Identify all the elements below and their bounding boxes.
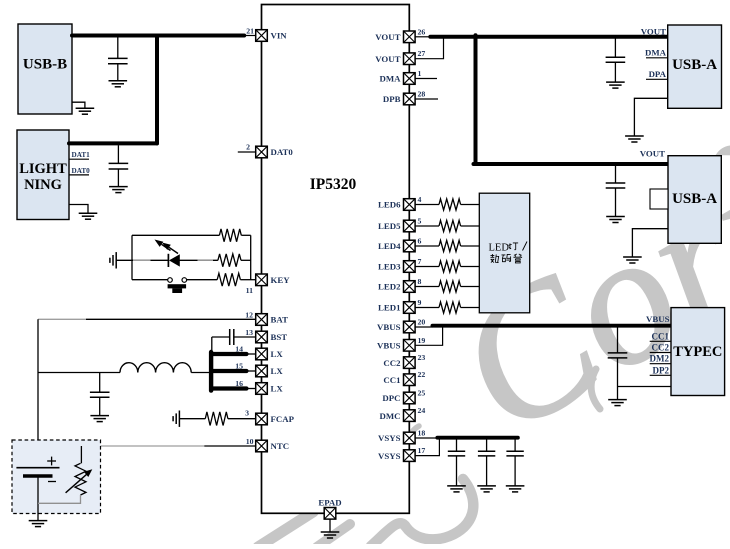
- svg-text:10: 10: [246, 437, 254, 446]
- svg-text:LED6: LED6: [378, 200, 401, 210]
- resistor R8 LED3: [439, 261, 461, 272]
- resistor R4 FCAP: [205, 412, 228, 426]
- wire R1 to right rail: [241, 234, 250, 236]
- capacitor C6: [606, 182, 626, 184]
- wire R8 to LED box: [461, 266, 480, 268]
- capacitor C4 wire: [99, 373, 101, 393]
- wire key left rail: [131, 235, 133, 279]
- ground C4: [90, 415, 109, 417]
- battery BT1 minus sign: [48, 481, 56, 483]
- svg-text:LED2: LED2: [378, 282, 401, 292]
- ground USB-A 1: [625, 135, 644, 137]
- wire VIN thin to pin 21: [244, 35, 256, 37]
- svg-text:2: 2: [246, 143, 250, 152]
- wire VOUT2 thick drop: [474, 35, 478, 164]
- svg-text:FCAP: FCAP: [271, 414, 295, 424]
- battery pack dashed box: [12, 440, 101, 514]
- wire DPB pin 28 stub: [415, 98, 438, 100]
- thermistor RT1 bottom wire: [38, 495, 81, 503]
- wire LED2 pin to resistor: [415, 286, 439, 288]
- switch SW1 contact left: [168, 278, 173, 283]
- svg-text:3: 3: [245, 409, 249, 418]
- wire BAT to pin 12: [86, 318, 256, 320]
- svg-text:LED1: LED1: [378, 303, 401, 313]
- pin 9 LED1 square: [404, 302, 416, 314]
- svg-text:VBUS: VBUS: [377, 341, 401, 351]
- wire R9 to LED box: [461, 286, 480, 288]
- wire battery rail vertical: [37, 319, 39, 467]
- wire LED5 pin to resistor: [415, 225, 439, 227]
- svg-text:VSYS: VSYS: [378, 433, 401, 443]
- svg-text:DAT0: DAT0: [72, 167, 91, 175]
- LX thick vertical bar: [209, 352, 213, 391]
- capacitor C8: [448, 450, 465, 452]
- wire BAT gray seg: [38, 318, 86, 320]
- capacitor C6 wire: [615, 166, 617, 183]
- LED display label line2: [490, 254, 499, 263]
- svg-text:BST: BST: [271, 332, 288, 342]
- capacitor C5: [606, 56, 626, 58]
- capacitor C9 wire: [486, 439, 488, 451]
- wire BST cap left: [212, 336, 230, 338]
- wire VBUS pin 20 thin: [415, 326, 432, 328]
- pin 7 LED3 square: [404, 261, 416, 273]
- inductor L1: [120, 363, 191, 373]
- svg-text:DAT1: DAT1: [72, 151, 91, 159]
- wire inductor to LX bar: [191, 372, 209, 374]
- svg-text:LIGHT: LIGHT: [19, 161, 67, 177]
- resistor R6 LED5: [439, 220, 461, 231]
- capacitor C7 gnd wire: [617, 358, 619, 400]
- svg-text:DMA: DMA: [379, 74, 401, 84]
- wire BST pin 13 to cap: [234, 336, 256, 338]
- capacitor C2: [109, 162, 129, 164]
- wire VOUT2 thick bus: [474, 162, 669, 166]
- svg-text:24: 24: [418, 406, 426, 415]
- battery BT1 plate short: [23, 474, 53, 477]
- svg-text:22: 22: [418, 370, 426, 379]
- LED D1 arrow 2: [169, 247, 178, 253]
- svg-text:DM2: DM2: [650, 354, 670, 364]
- node CC1 stub: [650, 340, 671, 342]
- wire NTC to pin 10: [204, 445, 255, 447]
- connector USB-A 1 box: [668, 25, 722, 108]
- LED D1 cathode bar: [167, 254, 169, 267]
- wire key right rail: [250, 235, 252, 279]
- ground USB-A 2: [623, 256, 642, 258]
- wire VOUT pin 26 thin: [415, 36, 430, 38]
- pin 27 VOUT square: [404, 53, 416, 65]
- ground C7: [608, 399, 627, 401]
- pin 22 CC1 square: [404, 374, 416, 386]
- svg-text:CC2: CC2: [652, 343, 670, 353]
- wire LED6 pin to resistor: [415, 204, 439, 206]
- connector LIGHTNING box: [17, 130, 69, 220]
- ground C9: [477, 485, 496, 487]
- ground KEY side: [115, 252, 117, 268]
- svg-text:VIN: VIN: [271, 31, 288, 41]
- pin 25 DPC square: [404, 392, 416, 404]
- pin 15 LX square: [256, 365, 268, 377]
- svg-text:VOUT: VOUT: [375, 32, 400, 42]
- pin 4 LED6 square: [404, 199, 416, 211]
- LED D1 arrow 1: [162, 244, 171, 250]
- svg-text:DAT0: DAT0: [271, 147, 294, 157]
- resistor R9 LED2: [439, 281, 461, 292]
- ground C2: [109, 186, 128, 188]
- pin 5 LED5 square: [404, 220, 416, 232]
- pin 21 VIN square: [256, 30, 268, 42]
- LED D1 triangle: [169, 254, 180, 266]
- svg-text:25: 25: [418, 389, 426, 398]
- connector USB-B box: [18, 24, 72, 114]
- node CC2 stub: [650, 352, 671, 354]
- svg-text:TYPEC: TYPEC: [673, 344, 722, 360]
- pin 18 VSYS square: [404, 432, 416, 444]
- pin 24 DMC square: [404, 410, 416, 422]
- svg-text:CC1: CC1: [652, 331, 670, 341]
- wire R10 to LED box: [461, 307, 480, 309]
- pin 6 LED4 square: [404, 240, 416, 252]
- svg-text:LED4: LED4: [378, 241, 401, 251]
- capacitor C4 gnd wire: [99, 397, 101, 415]
- svg-text:NING: NING: [24, 177, 62, 193]
- LX thick arm pin 14: [211, 352, 246, 356]
- svg-text:VOUT: VOUT: [375, 54, 400, 64]
- resistor R10 LED1: [439, 302, 461, 313]
- node DM2 stub: [650, 363, 671, 365]
- LX thick arm pin 16: [211, 386, 246, 390]
- wire VIN thick USB-B to pin 21: [72, 34, 244, 38]
- capacitor C1: [108, 57, 128, 59]
- watermark fragment stroke c: [317, 524, 350, 547]
- pin EPAD square: [324, 508, 336, 520]
- wire LX arm15 to pin: [246, 370, 256, 372]
- watermark fragment near pin 18: [409, 426, 419, 440]
- svg-text:VSYS: VSYS: [378, 451, 401, 461]
- thermistor RT1 zigzag: [75, 463, 86, 495]
- pin 20 VBUS square: [404, 321, 416, 333]
- connector TYPEC box: [671, 308, 725, 396]
- capacitor C1 gnd wire: [117, 64, 119, 81]
- watermark text Corp: [424, 107, 730, 473]
- wire VOUT thick bus: [430, 35, 667, 39]
- capacitor C1 wire: [117, 37, 119, 58]
- resistor R3 key bottom: [217, 273, 240, 286]
- pin 19 VBUS square: [404, 340, 416, 352]
- pin 3 FCAP square: [256, 413, 268, 425]
- svg-text:17: 17: [418, 446, 426, 455]
- svg-text:VOUT: VOUT: [641, 26, 666, 36]
- wire FCAP gnd to R4: [179, 418, 205, 420]
- capacitor C6 gnd wire: [615, 188, 617, 217]
- wire VBUS thick bus: [432, 324, 671, 328]
- wire key bottom rail left: [132, 279, 168, 281]
- pin 8 LED2 square: [404, 281, 416, 293]
- battery bottom wire: [37, 476, 39, 521]
- svg-text:USB-B: USB-B: [23, 57, 67, 73]
- watermark fragment o lower-left arc: [591, 369, 600, 409]
- watermark fragment top right: [716, 146, 730, 156]
- ground EPAD: [321, 531, 340, 533]
- svg-text:26: 26: [418, 27, 426, 36]
- pin 13 BST square: [256, 331, 268, 343]
- wire VBUS pin 19 riser: [415, 327, 443, 345]
- svg-text:BAT: BAT: [271, 315, 289, 325]
- wire LED row gray seg2: [198, 259, 214, 261]
- wire LED1 pin to resistor: [415, 307, 439, 309]
- capacitor C8 gnd wire: [456, 456, 458, 486]
- ground USB-B: [76, 107, 95, 109]
- pin 2 DAT0 square: [256, 146, 268, 158]
- wire C7 to TYPEC: [618, 386, 672, 388]
- pin 28 DPB square: [404, 93, 416, 105]
- svg-text:EPAD: EPAD: [318, 498, 341, 508]
- resistor R2 key mid: [218, 254, 241, 267]
- svg-text:VOUT: VOUT: [640, 149, 665, 159]
- node DPA stub: [646, 78, 668, 80]
- capacitor C10: [506, 450, 523, 452]
- svg-text:9: 9: [418, 298, 422, 307]
- capacitor C7 wire: [617, 327, 619, 353]
- svg-text:DPB: DPB: [383, 94, 401, 104]
- IC U1 IP5320 body: [262, 5, 410, 514]
- svg-text:7: 7: [418, 257, 422, 266]
- svg-text:28: 28: [418, 90, 426, 99]
- resistor R7 LED4: [439, 240, 461, 251]
- wire LED row right: [179, 259, 218, 261]
- node DMA stub: [646, 57, 668, 59]
- svg-text:USB-A: USB-A: [672, 57, 717, 73]
- svg-text:DP2: DP2: [653, 365, 670, 375]
- svg-text:4: 4: [418, 195, 422, 204]
- wire LED4 pin to resistor: [415, 245, 439, 247]
- capacitor C5 wire: [614, 39, 616, 58]
- LIGHTNING ground wire: [69, 205, 88, 214]
- LX thick arm pin 15: [211, 369, 246, 373]
- svg-text:DPC: DPC: [382, 393, 400, 403]
- resistor R5 LED6: [439, 199, 461, 210]
- wire key gnd to LED: [116, 259, 133, 261]
- svg-text:LX: LX: [271, 366, 284, 376]
- capacitor C5 gnd wire: [614, 62, 616, 82]
- pin 16 LX square: [256, 383, 268, 395]
- capacitor C10 wire: [514, 439, 516, 451]
- battery BT1 plus sign: [47, 460, 56, 462]
- wire R2 to right rail: [241, 259, 251, 261]
- USB-B ground wire: [72, 102, 85, 108]
- svg-text:19: 19: [418, 336, 426, 345]
- wire R7 to LED box: [461, 245, 480, 247]
- wire VSYS pin 18 thin: [415, 437, 437, 439]
- capacitor C3 BST: [233, 329, 235, 345]
- wire R6 to LED box: [461, 225, 480, 227]
- svg-text:DPA: DPA: [649, 69, 667, 79]
- svg-text:6: 6: [418, 237, 422, 246]
- svg-text:IP5320: IP5320: [310, 176, 357, 193]
- ground C6: [606, 216, 625, 218]
- capacitor C2 wire: [117, 145, 119, 163]
- wire DMA pin 1 stub: [415, 78, 437, 80]
- node DP2 stub: [650, 374, 671, 376]
- wire VSYS pin 17 riser: [415, 439, 439, 456]
- wire NTC gray: [81, 445, 204, 447]
- ground battery: [29, 520, 48, 522]
- battery BT1 plate long: [16, 467, 59, 469]
- wire rail to inductor: [38, 372, 120, 374]
- pin 23 CC2 square: [404, 357, 416, 369]
- capacitor C2 gnd wire: [117, 169, 119, 187]
- wire R4 to pin 3: [228, 418, 256, 420]
- capacitor C7: [608, 352, 628, 354]
- svg-text:12: 12: [245, 311, 253, 320]
- wire DAT0 pin 2 stub: [238, 151, 256, 153]
- capacitor C8 wire: [456, 439, 458, 451]
- EPAD ground wire: [329, 519, 331, 532]
- watermark fragment stroke b: [258, 512, 313, 547]
- svg-text:8: 8: [418, 277, 422, 286]
- svg-text:VBUS: VBUS: [646, 314, 670, 324]
- wire LED row gray seg1: [133, 259, 151, 261]
- svg-text:23: 23: [418, 353, 426, 362]
- node DAT1 stub: [69, 158, 89, 160]
- wire LED row left: [132, 259, 168, 261]
- pin 10 NTC square: [256, 440, 268, 452]
- svg-text:KEY: KEY: [271, 275, 291, 285]
- pin 11 KEY square: [256, 274, 268, 286]
- svg-text:CC2: CC2: [383, 358, 401, 368]
- svg-text:LED5: LED5: [378, 221, 401, 231]
- svg-text:LX: LX: [271, 349, 284, 359]
- wire VBUS vertical thick join: [155, 36, 159, 144]
- svg-text:13: 13: [245, 328, 253, 337]
- LED display box: [479, 193, 529, 313]
- svg-text:LX: LX: [271, 384, 284, 394]
- wire R5 to LED box: [461, 204, 480, 206]
- pin 1 DMA square: [404, 73, 416, 85]
- ground C1: [109, 80, 128, 82]
- ground C8: [447, 485, 466, 487]
- svg-text:20: 20: [418, 318, 426, 327]
- wire LX arm14 to pin: [246, 353, 256, 355]
- switch SW1 contact right: [182, 278, 187, 283]
- watermark letter tail hook: [371, 479, 473, 546]
- USB-A 2 ground wire: [632, 229, 668, 257]
- wire BST cap down to LX: [211, 337, 213, 350]
- resistor R1 key top: [219, 229, 241, 242]
- capacitor C9 gnd wire: [486, 456, 488, 486]
- svg-text:1: 1: [418, 69, 422, 78]
- thermistor RT1 top wire: [80, 446, 82, 463]
- wire LX arm16 to pin: [246, 388, 256, 390]
- wire key bottom rail right: [187, 279, 218, 281]
- svg-text:NTC: NTC: [271, 441, 290, 451]
- pin 17 VSYS square: [404, 450, 416, 462]
- svg-text:USB-A: USB-A: [672, 191, 717, 207]
- capacitor C9: [478, 450, 495, 452]
- capacitor C10 gnd wire: [514, 456, 516, 486]
- USB-A 1 ground wire: [634, 98, 667, 136]
- ground C10: [506, 485, 525, 487]
- wire VSYS thick bus: [437, 436, 518, 440]
- svg-text:CC1: CC1: [383, 375, 400, 385]
- wire VOUT pin 27 riser: [415, 38, 443, 59]
- svg-text:11: 11: [246, 286, 253, 295]
- switch SW1 button body: [168, 284, 187, 288]
- wire LIGHTNING VBUS thick: [69, 141, 157, 145]
- node DAT0 stub: [69, 174, 89, 176]
- svg-text:VBUS: VBUS: [377, 322, 401, 332]
- svg-text:18: 18: [418, 429, 426, 438]
- pin 12 BAT square: [256, 314, 268, 326]
- capacitor C4: [90, 391, 110, 393]
- ground FCAP side: [178, 411, 180, 427]
- svg-text:DMA: DMA: [645, 47, 667, 57]
- wire LED3 pin to resistor: [415, 266, 439, 268]
- svg-text:LED3: LED3: [378, 262, 401, 272]
- svg-text:27: 27: [418, 49, 426, 58]
- wire R3 to pin 11: [240, 279, 255, 281]
- connector USB-A 2 notch: [650, 189, 668, 209]
- svg-text:5: 5: [418, 217, 422, 226]
- svg-text:LED: LED: [489, 243, 510, 254]
- pin 14 LX square: [256, 348, 268, 360]
- thermistor RT1 arrow: [66, 473, 89, 493]
- connector USB-A 2 box: [668, 156, 721, 244]
- ground LIGHTNING: [79, 212, 98, 214]
- svg-text:21: 21: [246, 27, 254, 36]
- ground C5: [606, 81, 625, 83]
- pin 26 VOUT square: [404, 31, 416, 43]
- svg-text:DMC: DMC: [379, 411, 400, 421]
- wire key top rail: [132, 234, 219, 236]
